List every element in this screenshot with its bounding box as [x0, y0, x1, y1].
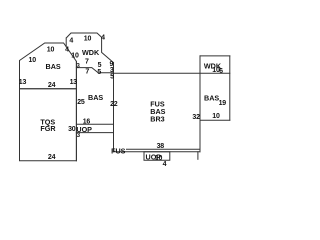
- svg-text:22: 22: [110, 101, 118, 108]
- right WDK box top: [200, 55, 230, 57]
- svg-text:6: 6: [219, 68, 223, 75]
- middle UOP strip: [76, 124, 113, 132]
- svg-text:10: 10: [212, 113, 220, 120]
- svg-text:BAS: BAS: [88, 93, 103, 102]
- bottom right stub wire: [197, 152, 199, 160]
- svg-text:BAS: BAS: [204, 93, 219, 102]
- svg-text:32: 32: [192, 114, 200, 121]
- main building top edge wire: [114, 72, 230, 74]
- WDK top deck outline: [66, 33, 113, 63]
- svg-text:10: 10: [155, 155, 163, 162]
- svg-text:4: 4: [65, 46, 69, 53]
- svg-text:FUS: FUS: [111, 147, 126, 156]
- svg-text:30: 30: [68, 126, 76, 133]
- svg-text:25: 25: [77, 99, 85, 106]
- svg-text:10: 10: [29, 57, 37, 64]
- svg-text:19: 19: [219, 100, 227, 107]
- svg-text:5: 5: [110, 74, 114, 81]
- svg-text:10: 10: [84, 36, 92, 43]
- svg-text:24: 24: [48, 82, 56, 89]
- svg-text:7: 7: [85, 69, 89, 76]
- svg-text:BR3: BR3: [150, 114, 164, 123]
- middle BAS top stepped edge: [76, 68, 113, 73]
- svg-text:4: 4: [101, 35, 105, 42]
- svg-text:7: 7: [85, 59, 89, 66]
- bottom UOP porch box: [144, 152, 170, 161]
- right BAS box bottom: [200, 119, 230, 121]
- main building bottom double line: [114, 149, 201, 152]
- svg-text:FGR: FGR: [40, 124, 56, 133]
- svg-text:16: 16: [83, 118, 91, 125]
- TQS FGR garage box: [20, 89, 77, 161]
- left BAS building outline: [20, 43, 77, 89]
- middle/main shared vertical wire: [113, 63, 115, 152]
- svg-text:24: 24: [48, 154, 56, 161]
- svg-text:10: 10: [71, 53, 79, 60]
- svg-text:10: 10: [47, 47, 55, 54]
- svg-text:13: 13: [19, 79, 27, 86]
- svg-text:5: 5: [98, 62, 102, 69]
- svg-text:BAS: BAS: [46, 62, 61, 71]
- svg-text:38: 38: [157, 143, 165, 150]
- right box right edge wire: [229, 56, 231, 120]
- main building right edge wire: [199, 56, 201, 152]
- middle column left vertical wire: [75, 61, 77, 160]
- svg-text:4: 4: [69, 38, 73, 45]
- svg-text:WDK: WDK: [82, 48, 100, 57]
- svg-text:5: 5: [97, 69, 101, 76]
- svg-text:4: 4: [163, 161, 167, 168]
- svg-text:13: 13: [70, 79, 78, 86]
